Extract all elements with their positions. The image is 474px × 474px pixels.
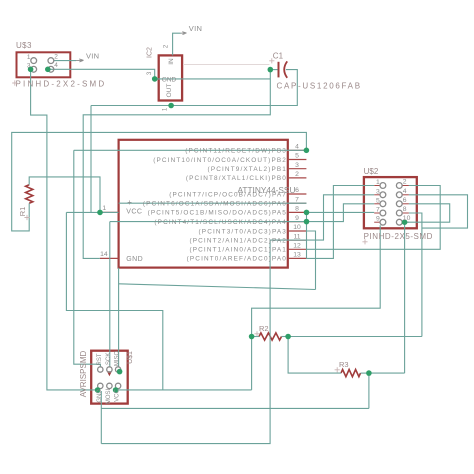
- svg-text:3: 3: [376, 188, 380, 195]
- svg-text:9: 9: [376, 216, 380, 223]
- svg-text:U$3: U$3: [16, 41, 32, 50]
- svg-text:10: 10: [403, 215, 411, 222]
- svg-text:IC2: IC2: [146, 47, 153, 58]
- svg-text:(PCINT9/XTAL2)PB1: (PCINT9/XTAL2)PB1: [208, 166, 287, 173]
- svg-text:11: 11: [293, 233, 300, 240]
- svg-text:(PCINT4/T1/SCL/USCK/ADC4)PA4: (PCINT4/T1/SCL/USCK/ADC4)PA4: [154, 219, 287, 226]
- svg-text:7: 7: [376, 207, 380, 214]
- svg-text:R3: R3: [339, 360, 349, 369]
- svg-text:5: 5: [295, 153, 299, 160]
- svg-text:U$2: U$2: [364, 167, 379, 176]
- svg-text:OUT: OUT: [166, 84, 173, 98]
- svg-text:U$1: U$1: [127, 351, 134, 364]
- svg-text:6: 6: [295, 187, 299, 194]
- svg-text:PINHD-2X5-SMD: PINHD-2X5-SMD: [364, 232, 433, 241]
- svg-text:IN: IN: [168, 58, 175, 65]
- svg-text:MOSI: MOSI: [106, 389, 112, 405]
- svg-text:2: 2: [54, 54, 58, 61]
- svg-text:RST: RST: [97, 353, 103, 365]
- svg-text:CAP-US1206FAB: CAP-US1206FAB: [277, 82, 362, 91]
- svg-text:4: 4: [54, 62, 58, 69]
- svg-text:(PCINT8/XTAL1/CLKI)PB0: (PCINT8/XTAL1/CLKI)PB0: [186, 175, 287, 182]
- svg-text:3: 3: [27, 63, 31, 70]
- svg-text:3: 3: [295, 162, 299, 169]
- svg-text:2: 2: [295, 171, 299, 178]
- svg-text:(PCINT2/AIN1/ADC2)PA2: (PCINT2/AIN1/ADC2)PA2: [189, 237, 287, 244]
- svg-text:+: +: [127, 198, 132, 207]
- svg-text:4: 4: [295, 144, 299, 151]
- svg-text:10: 10: [293, 224, 301, 231]
- svg-text:(PCINT11/RESET/DW)PB3: (PCINT11/RESET/DW)PB3: [185, 148, 287, 155]
- svg-text:(PCINT1/AIN0/ADC1)PA1: (PCINT1/AIN0/ADC1)PA1: [189, 247, 287, 254]
- svg-text:R2: R2: [259, 324, 269, 333]
- svg-text:9: 9: [295, 215, 299, 222]
- svg-text:(PCINT3/T0/ADC3)PA3: (PCINT3/T0/ADC3)PA3: [199, 228, 288, 235]
- svg-text:4: 4: [403, 188, 407, 195]
- svg-text:(PCINT6/OC1A/SDA/MOSI/ADC6)PA6: (PCINT6/OC1A/SDA/MOSI/ADC6)PA6: [143, 201, 287, 208]
- svg-text:(PCINT7/ICP/OC0B/ADC7)PA7: (PCINT7/ICP/OC0B/ADC7)PA7: [169, 191, 287, 198]
- svg-text:R1: R1: [18, 207, 27, 217]
- svg-text:6: 6: [403, 197, 407, 204]
- svg-text:VCC: VCC: [126, 208, 142, 215]
- svg-text:2: 2: [403, 179, 407, 186]
- svg-text:PINHD-2X2-SMD: PINHD-2X2-SMD: [16, 80, 107, 89]
- svg-text:1: 1: [27, 54, 31, 61]
- svg-text:12: 12: [293, 243, 301, 250]
- svg-text:VCC: VCC: [115, 389, 121, 402]
- svg-text:VIN: VIN: [189, 24, 202, 33]
- svg-text:5: 5: [376, 197, 380, 204]
- svg-text:C1: C1: [273, 52, 284, 61]
- svg-text:GND: GND: [162, 76, 177, 83]
- svg-text:7: 7: [295, 196, 299, 203]
- svg-text:(PCINT10/INT0/OC0A/CKOUT)PB2: (PCINT10/INT0/OC0A/CKOUT)PB2: [153, 157, 287, 164]
- svg-text:MISO: MISO: [115, 351, 121, 367]
- svg-text:GND: GND: [126, 256, 143, 263]
- svg-text:(PCINT5/OC1B/MISO/DO/ADC5)PA5: (PCINT5/OC1B/MISO/DO/ADC5)PA5: [148, 210, 287, 217]
- svg-text:14: 14: [100, 251, 108, 258]
- svg-text:8: 8: [295, 206, 299, 213]
- svg-text:SCK: SCK: [106, 353, 112, 365]
- svg-text:1: 1: [102, 205, 106, 212]
- svg-text:(PCINT0/AREF/ADC0)PA0: (PCINT0/AREF/ADC0)PA0: [187, 256, 287, 263]
- svg-text:VIN: VIN: [86, 52, 99, 61]
- svg-text:GND: GND: [97, 389, 103, 403]
- svg-text:8: 8: [403, 206, 407, 213]
- svg-text:AVRISPSMD: AVRISPSMD: [79, 351, 88, 398]
- svg-text:13: 13: [293, 252, 301, 259]
- svg-text:1: 1: [376, 179, 380, 186]
